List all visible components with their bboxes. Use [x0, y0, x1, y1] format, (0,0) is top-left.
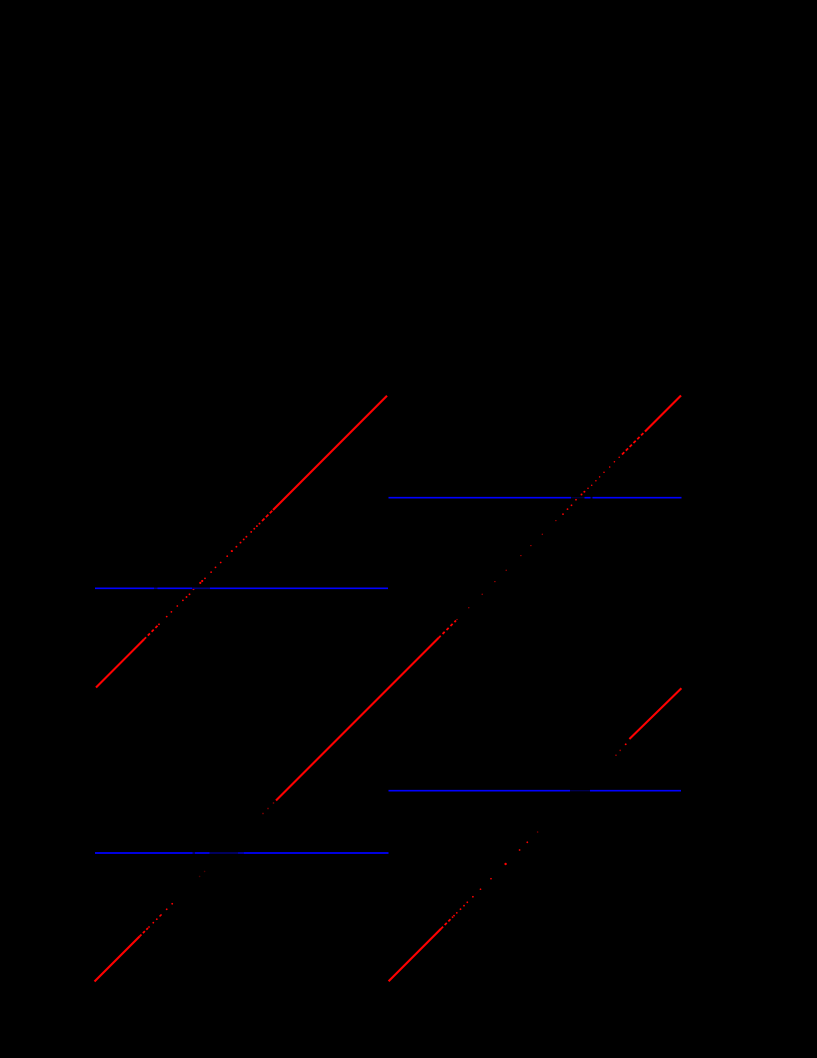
red diagonal band R5 — [615, 688, 681, 756]
blue flat band B3 — [95, 852, 389, 854]
red diagonal band R3 — [95, 871, 206, 982]
blue flat band B2 — [389, 497, 682, 499]
red diagonal band R1 — [96, 396, 387, 688]
red diagonal band R4 — [389, 831, 539, 981]
blue flat band B4 — [389, 790, 682, 792]
blue flat band B1 — [95, 587, 388, 589]
red diagonal band R2 — [262, 396, 681, 815]
